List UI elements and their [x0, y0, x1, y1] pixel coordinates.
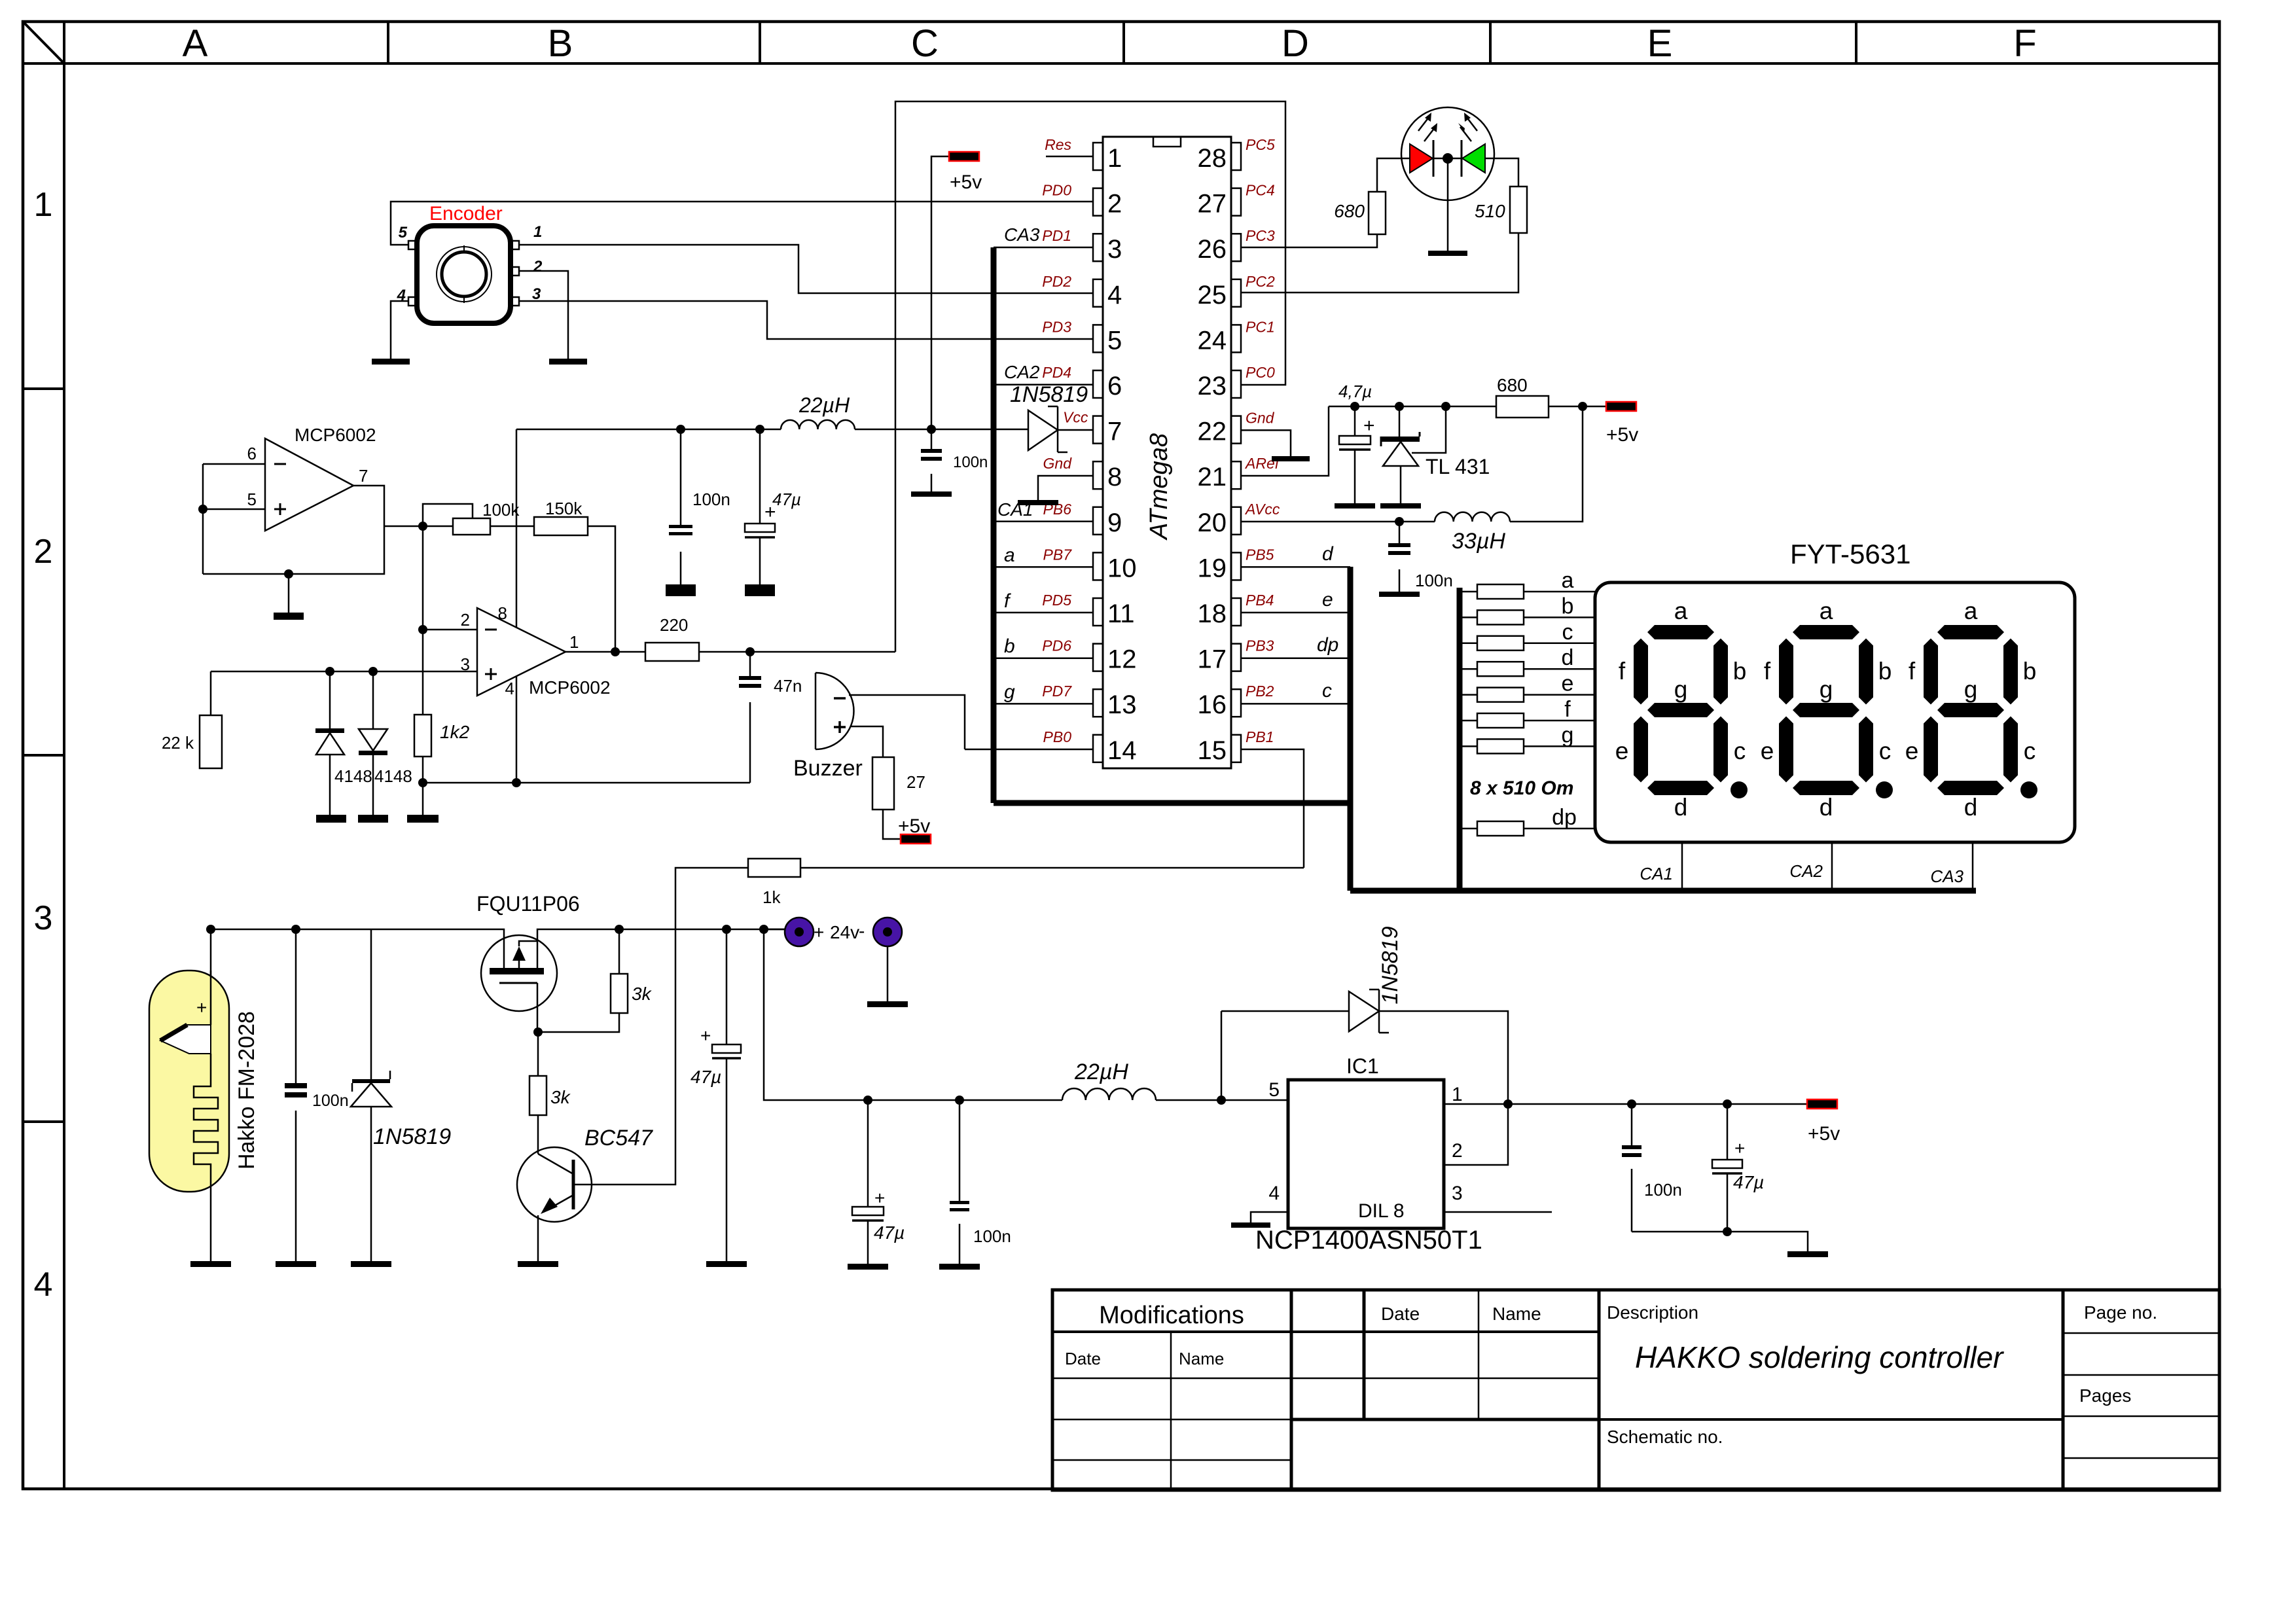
- node diode/pin1 junction: [1503, 1099, 1513, 1109]
- capacitor C 100n (ATmega Vcc): [931, 429, 933, 449]
- svg-text:FYT-5631: FYT-5631: [1790, 539, 1910, 569]
- node output 100n junction: [1627, 1099, 1636, 1109]
- jack J- 24v: [873, 918, 902, 946]
- wire 22uH to ATmega Vcc: [855, 429, 1028, 431]
- wire ATmega pin14 (PB0) to buzzer: [965, 749, 1093, 751]
- wire segment d resistor to display: [1524, 668, 1595, 670]
- node output 47u junction: [1723, 1099, 1732, 1109]
- svg-text:+: +: [196, 997, 207, 1018]
- LED emission arrows: [1418, 116, 1429, 131]
- svg-text:1: 1: [533, 223, 542, 241]
- svg-text:c: c: [1322, 680, 1332, 702]
- svg-text:PB7: PB7: [1043, 546, 1073, 563]
- svg-text:4148: 4148: [334, 766, 372, 786]
- svg-text:ATmega8: ATmega8: [1145, 433, 1173, 541]
- ground 47u boost: [848, 1264, 888, 1270]
- wire U1 output feedback loop: [203, 486, 384, 574]
- svg-text:TL 431: TL 431: [1426, 455, 1490, 478]
- svg-text:b: b: [1878, 658, 1892, 685]
- wire segment e resistor to display: [1524, 694, 1595, 696]
- svg-text:Hakko FM-2028: Hakko FM-2028: [234, 1011, 259, 1169]
- ATmega8 pin 14 (PB0): [1093, 735, 1103, 762]
- svg-text:2: 2: [34, 533, 53, 571]
- svg-text:PD6: PD6: [1042, 637, 1071, 654]
- node heater rail junction (100n): [291, 925, 300, 934]
- svg-text:c: c: [1734, 738, 1746, 764]
- svg-text:PC4: PC4: [1246, 182, 1275, 199]
- resistor R 22k: [200, 715, 222, 768]
- resistor R 220: [645, 643, 699, 661]
- wire IC1 pin4 to ground: [1251, 1212, 1288, 1222]
- wire ATmega pin1 Res stub: [1046, 156, 1093, 158]
- ATmega8 pin 11 (PD5): [1093, 598, 1103, 626]
- wire U1 pin6: [203, 463, 265, 465]
- title block left col divider: [1170, 1332, 1172, 1490]
- ATmega8 pin 27 (PC4): [1231, 188, 1241, 216]
- inductor L 33uH: [1435, 512, 1510, 522]
- wire 1k2 bottom to ground rail: [422, 757, 424, 783]
- svg-text:f: f: [1909, 658, 1916, 685]
- resistor R segment c 510: [1477, 636, 1524, 651]
- ground ATmega pin8: [1018, 500, 1058, 505]
- ATmega8 pin 26 (PC3): [1231, 234, 1241, 261]
- svg-text:1: 1: [1452, 1084, 1463, 1105]
- wire U2 pin4 vertical: [516, 676, 518, 783]
- wire IC1 pin1 to output rail: [1444, 1103, 1607, 1105]
- svg-text:E: E: [1647, 22, 1673, 65]
- resistor R segment a 510: [1477, 584, 1524, 599]
- ground encoder pin2: [549, 359, 587, 365]
- title block middle rows: [1291, 1378, 1599, 1380]
- U2 minus sign pin2: [485, 629, 497, 631]
- wire segment f resistor to display: [1524, 720, 1595, 722]
- svg-text:CA1: CA1: [1640, 864, 1673, 883]
- svg-text:PD7: PD7: [1042, 683, 1072, 700]
- wire 3k upper to +24 rail: [619, 929, 620, 974]
- bus segments vertical: [1348, 567, 1354, 891]
- encoder knob circles: [437, 247, 492, 302]
- svg-text:DIL 8: DIL 8: [1358, 1200, 1405, 1222]
- svg-text:6: 6: [247, 444, 257, 463]
- title block vertical thick 2443: [1598, 1290, 1601, 1490]
- display digit 1 segment e: [1634, 717, 1648, 783]
- ATmega8 pin 25 (PC2): [1231, 279, 1241, 307]
- wire ATmega pin17 (dp) to segment bus: [1240, 657, 1350, 659]
- svg-text:3: 3: [1452, 1183, 1463, 1204]
- svg-text:21: 21: [1198, 463, 1227, 491]
- border column dividers: [387, 22, 389, 63]
- svg-text:100n: 100n: [953, 454, 988, 471]
- ATmega8 pin 4 (PD2): [1093, 279, 1103, 307]
- BC547 emitter with arrow: [543, 1195, 573, 1212]
- U1 minus sign pin6: [274, 463, 286, 465]
- wire encoder pin3 to ATmega pin5 (PD3): [519, 301, 1093, 339]
- wire display CA1 pin: [1681, 842, 1683, 891]
- wire U1 output to 100k pot: [384, 526, 453, 527]
- ground 100n op-amp rail: [666, 584, 696, 596]
- ATmega8 pin 19 (PB5): [1231, 552, 1241, 580]
- svg-text:24v: 24v: [830, 922, 859, 942]
- ground 100n AVcc: [1379, 592, 1420, 597]
- ATmega8 pin 6 (PD4): [1093, 370, 1103, 398]
- wire 510 to LED anode: [1485, 158, 1518, 187]
- svg-text:PB3: PB3: [1246, 637, 1274, 654]
- resistor R segment g 510: [1477, 739, 1524, 753]
- display digit 2 segment a: [1793, 625, 1859, 639]
- node U1 pin5 junction: [198, 505, 207, 514]
- wire U1 left vertical: [202, 464, 204, 574]
- resistor R 1k: [748, 859, 800, 877]
- wire display CA3 pin: [1972, 842, 1974, 891]
- node output ground junction: [1723, 1227, 1732, 1236]
- ATmega8 pin 13 (PD7): [1093, 689, 1103, 717]
- svg-text:26: 26: [1198, 235, 1227, 264]
- wire +24 rail to jack: [764, 929, 785, 931]
- node 3k upper rail junction: [615, 925, 624, 934]
- node U2 output junction: [611, 647, 620, 656]
- svg-text:Schematic no.: Schematic no.: [1607, 1427, 1723, 1447]
- svg-text:Buzzer: Buzzer: [793, 756, 863, 781]
- wire gate node to 3k upper: [538, 1013, 619, 1032]
- wire segment dp resistor to bus: [1460, 828, 1477, 830]
- wire TL431 ref to rail: [1412, 406, 1446, 453]
- svg-text:680: 680: [1497, 375, 1528, 395]
- heater tip: [160, 1025, 211, 1054]
- ground 47u input: [706, 1261, 747, 1267]
- wire 22k to sensor vertical: [210, 671, 212, 715]
- wire ATmega pin19 (d) to segment bus: [1240, 566, 1350, 568]
- FQU11P06 channel bar: [490, 968, 544, 974]
- svg-text:7: 7: [1107, 418, 1122, 446]
- display digit 3 segment b: [2003, 639, 2018, 705]
- border frame corner diagonal: [23, 22, 64, 63]
- title block vertical thick 2084: [1363, 1290, 1366, 1419]
- node MOSFET gate junction: [533, 1027, 543, 1037]
- svg-text:22 k: 22 k: [162, 733, 194, 753]
- svg-text:4: 4: [1268, 1183, 1280, 1204]
- ground ATmega pin22: [1272, 456, 1310, 461]
- ATmega8 pin 21 (ARef): [1231, 461, 1241, 489]
- wire encoder pin2 to ground: [519, 271, 568, 359]
- svg-text:+5v: +5v: [950, 171, 982, 193]
- wire source (right) from +24 rail: [537, 929, 785, 968]
- svg-text:2: 2: [533, 258, 543, 276]
- buzzer plus sign: [834, 726, 846, 728]
- node U2 pin2 junction: [418, 625, 427, 634]
- svg-text:Gnd: Gnd: [1246, 410, 1275, 427]
- svg-text:+: +: [814, 922, 824, 942]
- svg-text:PC1: PC1: [1246, 318, 1275, 335]
- ATmega8 pin 20 (AVcc): [1231, 507, 1241, 535]
- svg-text:20: 20: [1198, 508, 1227, 537]
- ground 47u op-amp rail: [745, 584, 775, 596]
- svg-text:18: 18: [1198, 599, 1227, 628]
- ATmega8 top notch: [1153, 137, 1181, 147]
- svg-text:g: g: [1820, 676, 1833, 703]
- title block modifications header divider: [1052, 1330, 1599, 1333]
- svg-text:a: a: [1004, 544, 1015, 566]
- capacitor C 47u (output, electrolytic): [1727, 1104, 1729, 1160]
- svg-text:8: 8: [498, 603, 507, 623]
- wire ATmega pin11 (f) to bus: [994, 612, 1093, 614]
- svg-text:100n: 100n: [312, 1092, 349, 1110]
- resistor R 680 (red LED): [1369, 192, 1386, 234]
- encoder pin 5: [408, 241, 417, 249]
- ATmega8 pin 3 (PD1): [1093, 234, 1103, 261]
- display digit 3 segment c: [2003, 717, 2018, 783]
- wire heater rail verticals: [210, 929, 212, 1025]
- wire 150k right to U2 output node: [588, 526, 615, 652]
- resistor R 150k: [534, 517, 588, 535]
- svg-text:e: e: [1322, 589, 1333, 611]
- svg-text:f: f: [1764, 658, 1771, 685]
- wire segment e resistor to bus: [1460, 694, 1477, 696]
- border frame left band line: [63, 22, 65, 1489]
- node 47u rail junction: [755, 425, 764, 434]
- svg-text:C: C: [911, 22, 939, 65]
- svg-text:100k: 100k: [482, 500, 520, 520]
- svg-text:PB0: PB0: [1043, 728, 1072, 745]
- ground encoder pin4: [372, 359, 410, 365]
- title block vertical thick 3152: [2062, 1290, 2065, 1490]
- svg-text:5: 5: [399, 224, 408, 241]
- display digit 2 segment b: [1859, 639, 1873, 705]
- node 1k2 bottom junction: [418, 778, 427, 787]
- svg-text:BC547: BC547: [584, 1126, 653, 1150]
- svg-text:IC1: IC1: [1346, 1054, 1379, 1078]
- ground heater: [190, 1261, 231, 1267]
- svg-text:g: g: [1674, 676, 1688, 703]
- svg-text:PB4: PB4: [1246, 592, 1274, 609]
- wire TL431 +5v rail: [1329, 406, 1496, 408]
- ATmega8 pin 28 (PC5): [1231, 143, 1241, 170]
- ATmega8 pin 7 (Vcc): [1093, 416, 1103, 444]
- svg-text:2: 2: [1452, 1140, 1463, 1162]
- svg-text:-: -: [859, 921, 865, 941]
- svg-text:1: 1: [569, 632, 579, 652]
- svg-text:100n: 100n: [973, 1226, 1011, 1246]
- wire encoder pin4 to ground: [391, 301, 408, 359]
- resistor R segment e 510: [1477, 688, 1524, 702]
- ground output: [1787, 1251, 1828, 1257]
- ATmega8 pin 5 (PD3): [1093, 325, 1103, 352]
- LED green diode: [1462, 144, 1485, 173]
- svg-text:19: 19: [1198, 554, 1227, 582]
- node diode clamp junction 1: [325, 667, 334, 676]
- wire segment b resistor to display: [1524, 616, 1595, 618]
- display digit 1 segment c: [1713, 717, 1728, 783]
- svg-text:FQU11P06: FQU11P06: [476, 892, 580, 916]
- wire 1k2 ground stub: [422, 783, 424, 815]
- node diode clamp junction 2: [368, 667, 378, 676]
- svg-text:1: 1: [34, 186, 53, 224]
- svg-text:d: d: [1964, 794, 1978, 821]
- ATmega8 pin 10 (PB7): [1093, 552, 1103, 580]
- wire ADC node up to PC0 riser: [895, 101, 1285, 652]
- regulator U TL431: [1399, 406, 1401, 439]
- ground jack: [867, 1001, 908, 1007]
- svg-text:Date: Date: [1381, 1304, 1420, 1324]
- node heater rail junction (sensor): [206, 925, 215, 934]
- jack J+ 24v: [785, 918, 814, 946]
- diode D 1N5819 (Vcc): [1028, 410, 1058, 450]
- svg-text:4148: 4148: [374, 766, 412, 786]
- svg-text:PD5: PD5: [1042, 592, 1071, 609]
- ground LED: [1428, 251, 1467, 256]
- IC U3 ATmega8 body: [1103, 137, 1231, 768]
- svg-text:22µH: 22µH: [798, 393, 850, 417]
- wire sensor + input rail: [211, 671, 477, 673]
- svg-text:g: g: [1004, 681, 1015, 703]
- svg-text:100n: 100n: [692, 490, 730, 509]
- ground 100n boost: [939, 1264, 980, 1270]
- wire 680 to LED anode: [1377, 158, 1410, 192]
- node +24 junction: [759, 925, 768, 934]
- FQU11P06 body arrow: [518, 961, 520, 968]
- svg-text:100n: 100n: [1415, 571, 1453, 590]
- wire U2 inverting node vertical (100k left to 1k2): [422, 526, 424, 715]
- ground D2: [358, 815, 388, 823]
- svg-text:1k2: 1k2: [440, 722, 470, 742]
- svg-text:23: 23: [1198, 372, 1227, 401]
- svg-text:100n: 100n: [1644, 1180, 1682, 1200]
- transistor Q2 BC547: [517, 1147, 592, 1222]
- border row dividers: [23, 387, 64, 390]
- encoder pin 4: [408, 297, 417, 306]
- node 47u input junction: [722, 925, 731, 934]
- svg-text:PB1: PB1: [1246, 728, 1274, 745]
- display digit 2 segment e: [1779, 717, 1793, 783]
- wire segment d resistor to bus: [1460, 668, 1477, 670]
- svg-text:15: 15: [1198, 736, 1227, 765]
- title block vertical thin 2259: [1478, 1290, 1480, 1419]
- svg-text:CA1: CA1: [997, 499, 1033, 520]
- display digit 2 segment d: [1793, 781, 1859, 795]
- svg-text:c: c: [1562, 620, 1573, 645]
- svg-text:Name: Name: [1179, 1349, 1224, 1368]
- svg-text:b: b: [1004, 635, 1015, 657]
- U1 plus sign pin5: [274, 508, 286, 510]
- ATmega8 pin 12 (PD6): [1093, 644, 1103, 671]
- svg-text:NCP1400ASN50T1: NCP1400ASN50T1: [1255, 1226, 1482, 1255]
- potentiometer 100k wiper loop: [423, 504, 473, 526]
- svg-text:+: +: [1734, 1138, 1745, 1158]
- svg-text:PD0: PD0: [1042, 182, 1071, 199]
- svg-text:13: 13: [1107, 690, 1137, 719]
- svg-text:3: 3: [34, 899, 53, 937]
- ATmega8 pin 22 (Gnd): [1231, 416, 1241, 444]
- wire ATmega pin13 (g) to bus: [994, 703, 1093, 705]
- svg-text:B: B: [548, 22, 573, 65]
- resistor R 1k2: [414, 715, 431, 757]
- svg-text:Page no.: Page no.: [2084, 1302, 2157, 1323]
- heater meander: [194, 1054, 218, 1174]
- wire gate down from plate: [537, 983, 539, 1032]
- svg-text:24: 24: [1198, 326, 1227, 355]
- svg-text:+: +: [1363, 415, 1375, 437]
- ATmega8 pin 2 (PD0): [1093, 188, 1103, 216]
- capacitor C 47n: [739, 676, 761, 680]
- diode D2 4148 (cathode down): [372, 671, 374, 729]
- bus resistor pack vertical: [1457, 588, 1463, 891]
- svg-text:6: 6: [1107, 372, 1122, 401]
- resistor R segment dp 510: [1477, 821, 1524, 836]
- wire encoder pin1 to ATmega pin4 (PD2): [519, 245, 1093, 293]
- svg-text:a: a: [1820, 597, 1833, 624]
- wire ATmega pin16 (c) to segment bus: [1240, 703, 1350, 705]
- wire ATmega pin22 Gnd: [1240, 430, 1291, 456]
- node 100n rail junction: [676, 425, 685, 434]
- wire +24 down to boost rail: [764, 929, 1062, 1100]
- wire U1 pin5: [203, 508, 265, 510]
- svg-text:1N5819: 1N5819: [1378, 926, 1403, 1004]
- title block outer: [1052, 1290, 2219, 1490]
- inductor L 22uH: [781, 420, 855, 429]
- svg-text:b: b: [2023, 658, 2037, 685]
- capacitor C 100n (AVcc): [1399, 522, 1401, 543]
- BC547 collector: [538, 1154, 573, 1174]
- svg-text:2: 2: [461, 610, 470, 630]
- node AVcc 100n junction: [1395, 517, 1404, 526]
- border frame top band line: [23, 62, 2219, 65]
- capacitor C 100n (boost in): [959, 1100, 961, 1201]
- ground 100n ATmega: [911, 491, 952, 497]
- svg-text:8 x 510 Om: 8 x 510 Om: [1470, 777, 1573, 799]
- svg-text:A: A: [183, 22, 208, 65]
- svg-text:PC2: PC2: [1246, 273, 1275, 290]
- wire ATmega pin10 (a) to bus: [994, 566, 1093, 568]
- svg-text:27: 27: [906, 772, 925, 792]
- display digit 2 segment g: [1793, 703, 1859, 717]
- bus CA horizontal: [994, 800, 1350, 806]
- svg-text:8: 8: [1107, 463, 1122, 491]
- resistor R segment d 510: [1477, 662, 1524, 676]
- wire ATmega pin12 (b) to bus: [994, 657, 1093, 659]
- wire ATmega pin3 (CA3) to bus: [994, 247, 1093, 249]
- wire +5v bar to rail: [931, 156, 950, 429]
- resistor R 27: [872, 757, 894, 810]
- buzzer minus sign: [834, 697, 846, 700]
- svg-text:27: 27: [1198, 190, 1227, 219]
- svg-text:47µ: 47µ: [874, 1222, 905, 1243]
- wire +5v rail down to 100k/150k node (U2 pin8 feed): [516, 429, 518, 627]
- ATmega8 pin 15 (PB1): [1231, 735, 1241, 762]
- svg-text:+5v: +5v: [1606, 424, 1638, 446]
- svg-text:3k: 3k: [632, 984, 653, 1004]
- wire segment g resistor to bus: [1460, 745, 1477, 747]
- wire segment dp resistor to display: [1524, 828, 1595, 830]
- ground U1: [274, 613, 304, 620]
- svg-text:PD3: PD3: [1042, 318, 1071, 335]
- svg-text:CA2: CA2: [1789, 861, 1823, 881]
- svg-text:Gnd: Gnd: [1043, 455, 1073, 472]
- diode D1 4148 (cathode up): [329, 671, 331, 728]
- svg-text:MCP6002: MCP6002: [295, 425, 376, 445]
- svg-text:510: 510: [1475, 201, 1505, 221]
- display digit 3 segment f: [1924, 639, 1938, 705]
- svg-text:Date: Date: [1065, 1349, 1101, 1368]
- wire jack minus to ground: [887, 946, 889, 1001]
- svg-text:47µ: 47µ: [772, 490, 801, 509]
- display digit 1 segment g: [1647, 703, 1714, 717]
- svg-text:a: a: [1674, 597, 1688, 624]
- svg-text:dp: dp: [1317, 634, 1338, 656]
- svg-text:f: f: [1619, 658, 1626, 685]
- node ADC junction (47n top): [745, 647, 755, 656]
- capacitor C 47u (op-amp rail, electrolytic): [759, 429, 761, 524]
- node boost 100n junction: [955, 1096, 964, 1105]
- wire U1 ground stub: [288, 574, 290, 613]
